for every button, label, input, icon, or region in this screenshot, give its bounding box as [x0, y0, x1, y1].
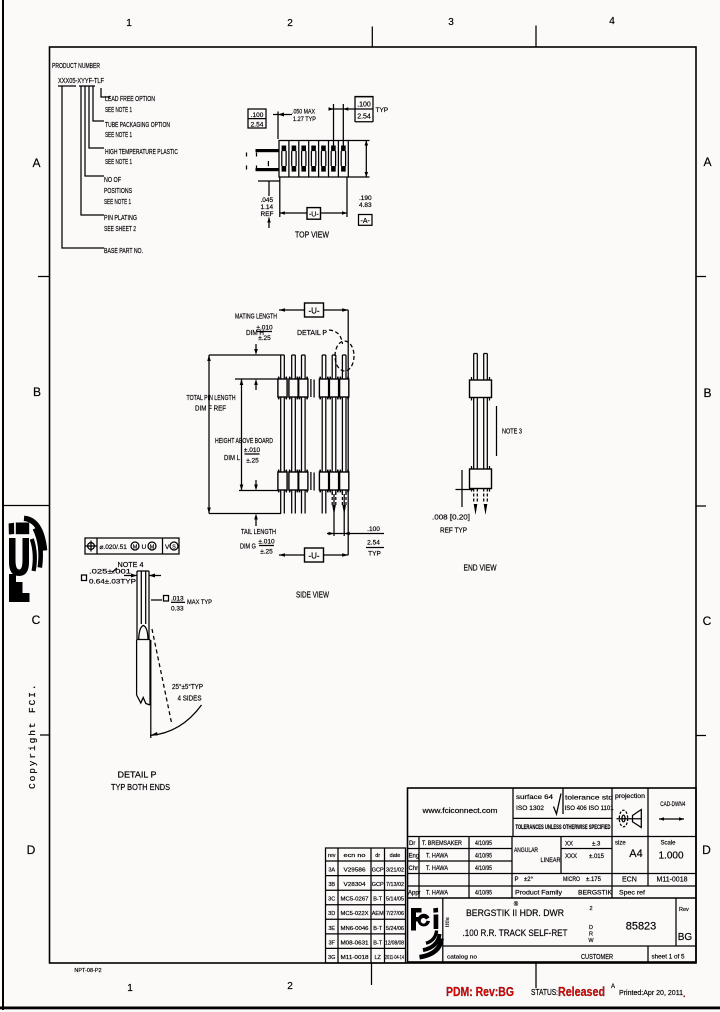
svg-text:.013: .013 [171, 596, 184, 603]
svg-text:ECN: ECN [622, 877, 637, 884]
svg-text:4/10/95: 4/10/95 [475, 866, 493, 872]
svg-text:surface 64: surface 64 [516, 794, 553, 801]
svg-text:3C: 3C [328, 897, 335, 903]
svg-text:SEE SHEET 2: SEE SHEET 2 [104, 224, 136, 233]
svg-text:MN6-0046: MN6-0046 [341, 926, 369, 932]
svg-text:1.27 TYP: 1.27 TYP [293, 116, 316, 123]
svg-text:DETAIL P: DETAIL P [297, 328, 327, 337]
svg-text:±.175: ±.175 [586, 877, 602, 883]
svg-text:T. HAWA: T. HAWA [426, 854, 448, 860]
svg-text:REF TYP: REF TYP [440, 528, 467, 535]
svg-text:XX: XX [565, 842, 573, 848]
svg-text:1.000: 1.000 [658, 851, 683, 862]
svg-text:Rev: Rev [679, 907, 689, 913]
svg-text:XXX: XXX [565, 854, 577, 860]
svg-text:±.010: ±.010 [256, 325, 273, 332]
svg-text:Dr: Dr [409, 841, 415, 847]
svg-text:25°±5°TYP: 25°±5°TYP [172, 683, 203, 691]
svg-text:TOP VIEW: TOP VIEW [295, 231, 329, 240]
svg-text:BG: BG [678, 932, 693, 943]
svg-text:SEE NOTE 1: SEE NOTE 1 [105, 130, 132, 139]
svg-text:SEE NOTE 1: SEE NOTE 1 [104, 197, 131, 206]
svg-text:LEAD FREE OPTION: LEAD FREE OPTION [105, 94, 155, 103]
svg-text:DETAIL P: DETAIL P [118, 771, 157, 780]
svg-text:±.015: ±.015 [589, 854, 605, 860]
svg-text:LZ: LZ [374, 955, 381, 961]
svg-text:2.54: 2.54 [367, 540, 380, 547]
svg-text:BERGSTIK II HDR. DWR: BERGSTIK II HDR. DWR [466, 908, 564, 918]
svg-text:BASE PART NO.: BASE PART NO. [104, 246, 143, 255]
svg-text:CAD-DWN4: CAD-DWN4 [660, 801, 685, 808]
svg-text:GCP: GCP [372, 882, 384, 888]
svg-text:REF: REF [261, 211, 274, 218]
svg-text:DIM L: DIM L [224, 455, 240, 462]
svg-text:3E: 3E [328, 926, 335, 932]
svg-text:3G: 3G [328, 955, 335, 961]
svg-text:A4: A4 [629, 848, 642, 860]
svg-text:D: D [27, 843, 36, 857]
svg-text:2.54: 2.54 [357, 113, 371, 120]
svg-text:ISO 406 ISO 1101: ISO 406 ISO 1101 [565, 806, 615, 812]
svg-text:D: D [589, 925, 593, 931]
svg-text:.100: .100 [357, 101, 371, 108]
svg-text:size: size [615, 841, 626, 847]
svg-text:4/10/95: 4/10/95 [475, 891, 493, 897]
svg-text:V: V [165, 544, 170, 551]
svg-text:END VIEW: END VIEW [464, 564, 497, 573]
svg-text:DIM F REF: DIM F REF [195, 406, 226, 413]
svg-text:2: 2 [287, 18, 293, 29]
svg-text:title: title [445, 917, 451, 927]
svg-text:POSITIONS: POSITIONS [104, 186, 132, 195]
svg-text:-U-: -U- [308, 551, 319, 560]
svg-text:12/08/08: 12/08/08 [385, 940, 404, 946]
svg-text:V29586: V29586 [344, 868, 366, 874]
svg-text:AEM: AEM [372, 911, 384, 917]
svg-text:Printed:Apr 20, 2011: Printed:Apr 20, 2011 [619, 988, 683, 997]
svg-text:HIGH TEMPERATURE PLASTIC: HIGH TEMPERATURE PLASTIC [105, 147, 178, 156]
svg-text:±.010: ±.010 [258, 539, 275, 546]
svg-text:M: M [133, 545, 138, 551]
svg-text:±.3: ±.3 [592, 842, 601, 848]
svg-text:3F: 3F [328, 940, 335, 946]
svg-text:.025±.001: .025±.001 [89, 569, 132, 576]
svg-text:tolerance std: tolerance std [565, 795, 613, 802]
svg-text:4/10/95: 4/10/95 [475, 841, 493, 847]
svg-text:TYP: TYP [376, 107, 389, 114]
svg-text:0.64±.03TYP: 0.64±.03TYP [89, 579, 136, 586]
svg-text:SEE NOTE 1: SEE NOTE 1 [105, 157, 132, 166]
svg-text:ANGULAR: ANGULAR [514, 848, 539, 854]
svg-text:PRODUCT NUMBER: PRODUCT NUMBER [52, 61, 100, 70]
svg-text:B-T: B-T [373, 940, 383, 946]
svg-text:®: ® [514, 901, 519, 908]
svg-text:sheet 1 of 5: sheet 1 of 5 [652, 955, 686, 961]
svg-text:Appr: Appr [408, 891, 421, 897]
svg-text:A: A [611, 984, 615, 990]
svg-text:M: M [150, 545, 155, 551]
svg-text:M11-0018: M11-0018 [656, 877, 687, 884]
svg-text:.100: .100 [367, 526, 380, 533]
svg-text:3B: 3B [328, 882, 335, 888]
svg-text:3D: 3D [328, 911, 335, 917]
svg-text:TUBE PACKAGING OPTION: TUBE PACKAGING OPTION [105, 120, 170, 129]
svg-text:T. HAWA: T. HAWA [426, 891, 448, 897]
svg-text:B-T: B-T [373, 926, 383, 932]
svg-text:GCP: GCP [372, 868, 384, 874]
svg-text:MC5-022X: MC5-022X [341, 911, 369, 917]
svg-text:D: D [702, 843, 711, 857]
svg-text:⌀.020/.51: ⌀.020/.51 [100, 544, 128, 551]
svg-text:B: B [33, 385, 41, 399]
svg-text:7/13/02: 7/13/02 [386, 882, 404, 888]
svg-text:STATUS:: STATUS: [531, 988, 558, 997]
svg-text:.100 R.R. TRACK SELF-RET: .100 R.R. TRACK SELF-RET [463, 928, 568, 938]
svg-text:P: P [515, 877, 519, 883]
svg-text:V28304: V28304 [344, 882, 366, 888]
svg-text:5/24/06: 5/24/06 [386, 926, 404, 932]
svg-text:ecn no: ecn no [344, 853, 366, 859]
svg-text:dr: dr [375, 853, 380, 859]
svg-text:NPT-08-P2: NPT-08-P2 [74, 968, 101, 974]
svg-text:85823: 85823 [626, 921, 657, 933]
svg-text:B: B [703, 386, 711, 400]
svg-text:catalog no: catalog no [447, 955, 477, 961]
svg-text:±.25: ±.25 [246, 458, 259, 465]
svg-text:-U-: -U- [308, 306, 319, 315]
svg-text:Released: Released [558, 985, 605, 999]
svg-text:-U-: -U- [309, 211, 319, 218]
svg-text:SEE NOTE 1: SEE NOTE 1 [105, 105, 132, 114]
svg-text:1.14: 1.14 [261, 204, 274, 211]
svg-text:LINEAR: LINEAR [541, 858, 562, 864]
svg-text:date: date [390, 853, 401, 859]
svg-text:TOTAL PIN LENGTH: TOTAL PIN LENGTH [187, 395, 236, 402]
svg-text:T. BREMSAKER: T. BREMSAKER [422, 841, 463, 847]
svg-text:±.25: ±.25 [260, 549, 273, 556]
svg-text:DIM G: DIM G [240, 544, 256, 551]
svg-text:TYP: TYP [368, 551, 381, 558]
svg-text:www.fciconnect.com: www.fciconnect.com [421, 808, 497, 815]
svg-text:2.54: 2.54 [251, 122, 264, 129]
svg-text:5/14/05: 5/14/05 [386, 897, 404, 903]
svg-text:R: R [589, 932, 593, 938]
svg-text:TOLERANCES UNLESS OTHERWISE SP: TOLERANCES UNLESS OTHERWISE SPECIFIED [516, 824, 611, 831]
svg-text:4.83: 4.83 [359, 202, 372, 209]
svg-text:4 SIDES: 4 SIDES [178, 696, 202, 703]
svg-text:7/27/06: 7/27/06 [386, 911, 404, 917]
svg-text:MICRO: MICRO [563, 877, 580, 883]
svg-text:Scale: Scale [660, 841, 676, 847]
svg-text:.045: .045 [261, 197, 274, 204]
svg-text:PDM: Rev:BG: PDM: Rev:BG [446, 985, 514, 999]
svg-text:MAX TYP: MAX TYP [187, 599, 212, 606]
svg-text:HEIGHT ABOVE BOARD: HEIGHT ABOVE BOARD [215, 438, 273, 445]
svg-text:CUSTOMER: CUSTOMER [581, 954, 613, 961]
svg-text:2011-04-14: 2011-04-14 [385, 955, 404, 961]
svg-text:projection: projection [615, 794, 645, 800]
svg-text:Product Family: Product Family [515, 890, 563, 897]
svg-text:A: A [703, 155, 711, 169]
svg-text:MC5-0267: MC5-0267 [341, 897, 369, 903]
svg-text:C: C [32, 613, 41, 627]
svg-text:2: 2 [287, 981, 293, 992]
svg-text:4/10/95: 4/10/95 [475, 854, 493, 860]
svg-text:Copyright FCI.: Copyright FCI. [27, 683, 38, 789]
svg-text:M08-0631: M08-0631 [341, 940, 369, 946]
svg-text:T. HAWA: T. HAWA [426, 866, 448, 872]
svg-text:S: S [172, 545, 176, 551]
svg-text:NOTE 3: NOTE 3 [502, 429, 522, 436]
svg-text:U: U [142, 544, 147, 551]
svg-text:W: W [588, 938, 594, 944]
svg-text:0.33: 0.33 [171, 606, 184, 613]
svg-text:XXX05-XYYF-TLF: XXX05-XYYF-TLF [58, 76, 104, 85]
svg-text:Eng: Eng [409, 854, 420, 860]
svg-text:rev: rev [328, 853, 336, 859]
svg-text:TYP BOTH ENDS: TYP BOTH ENDS [111, 783, 170, 792]
svg-text:PIN PLATING: PIN PLATING [104, 213, 137, 222]
svg-text:.050 MAX: .050 MAX [292, 109, 316, 116]
svg-text:±2°: ±2° [524, 877, 534, 883]
svg-text:MATING LENGTH: MATING LENGTH [235, 314, 277, 321]
svg-text:A: A [32, 156, 40, 170]
svg-text:BERGSTIK: BERGSTIK [578, 890, 613, 897]
svg-text:ISO 1302: ISO 1302 [516, 805, 544, 812]
svg-text:1: 1 [127, 983, 133, 994]
svg-text:2: 2 [589, 906, 592, 912]
svg-text:SIDE VIEW: SIDE VIEW [296, 591, 329, 600]
svg-text:3A: 3A [328, 868, 335, 874]
svg-text:±.25: ±.25 [258, 335, 271, 342]
svg-text:1: 1 [126, 18, 132, 29]
svg-text:.190: .190 [359, 195, 372, 202]
svg-text:M11-0018: M11-0018 [341, 955, 369, 961]
svg-text:4: 4 [609, 16, 615, 27]
svg-text:3/21/02: 3/21/02 [386, 868, 404, 874]
svg-text:NO OF: NO OF [104, 175, 121, 184]
svg-text:.100: .100 [251, 112, 264, 119]
svg-text:B-T: B-T [373, 897, 383, 903]
svg-text:-A-: -A- [361, 218, 371, 225]
svg-text:Chr: Chr [409, 866, 419, 872]
svg-text:Spec ref: Spec ref [619, 890, 645, 897]
svg-text:.: . [683, 989, 686, 999]
svg-text:3: 3 [448, 17, 454, 28]
svg-text:.008 [0.20]: .008 [0.20] [432, 515, 470, 522]
svg-text:C: C [703, 614, 712, 628]
svg-text:TAIL LENGTH: TAIL LENGTH [241, 529, 276, 536]
svg-text:±.010: ±.010 [244, 447, 261, 454]
